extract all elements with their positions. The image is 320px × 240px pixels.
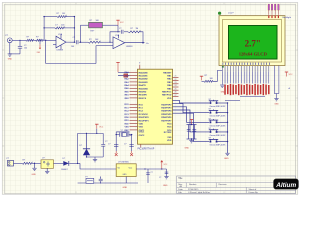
svg-text:GND: GND xyxy=(32,174,37,176)
svg-text:PIC16F877A-I/P: PIC16F877A-I/P xyxy=(138,148,155,151)
svg-text:VCC: VCC xyxy=(120,22,125,24)
svg-text:Number: Number xyxy=(189,183,197,186)
svg-text:RE0/RD: RE0/RD xyxy=(139,92,147,94)
svg-text:GND: GND xyxy=(274,104,279,106)
svg-text:22: 22 xyxy=(175,79,177,81)
svg-text:VDD: VDD xyxy=(139,124,144,126)
svg-text:1M: 1M xyxy=(62,13,65,15)
svg-text:F?: F? xyxy=(86,176,88,178)
svg-text:23: 23 xyxy=(175,82,177,84)
svg-text:VDD: VDD xyxy=(124,123,129,125)
svg-text:GND: GND xyxy=(224,158,229,160)
svg-text:LM358: LM358 xyxy=(57,50,64,52)
svg-text:RE1/WR: RE1/WR xyxy=(139,95,148,97)
svg-text:VCC: VCC xyxy=(289,74,294,76)
svg-text:RB6/PGC: RB6/PGC xyxy=(162,92,172,94)
svg-text:Revision: Revision xyxy=(219,184,228,186)
svg-text:D?: D? xyxy=(80,145,82,147)
svg-text:C?: C? xyxy=(124,144,126,146)
svg-text:Omron B3F-10XX: Omron B3F-10XX xyxy=(210,135,227,137)
svg-text:Title: Title xyxy=(178,177,183,180)
svg-text:104: 104 xyxy=(71,46,74,48)
svg-text:RE2/CS: RE2/CS xyxy=(139,98,147,100)
svg-text:RD1/PSP1: RD1/PSP1 xyxy=(139,120,150,122)
svg-text:GND: GND xyxy=(8,59,13,61)
svg-text:C?: C? xyxy=(119,28,121,30)
svg-text:128x64 GLCD: 128x64 GLCD xyxy=(239,52,268,57)
svg-text:RA5/AN4: RA5/AN4 xyxy=(139,87,149,90)
svg-text:U?A: U?A xyxy=(58,33,63,36)
svg-text:REF: REF xyxy=(37,52,40,54)
svg-text:VDD: VDD xyxy=(167,98,172,100)
svg-text:RC3/SCK: RC3/SCK xyxy=(139,114,149,116)
svg-text:C?: C? xyxy=(105,141,107,143)
svg-text:GND: GND xyxy=(185,148,190,150)
svg-text:Omron B3F-10XX: Omron B3F-10XX xyxy=(210,125,227,127)
svg-text:24: 24 xyxy=(175,85,177,87)
svg-text:RB7/PGD: RB7/PGD xyxy=(162,95,172,97)
svg-text:RD7/PSP7: RD7/PSP7 xyxy=(161,120,172,122)
svg-text:RD0/PSP0: RD0/PSP0 xyxy=(139,117,150,119)
svg-text:S?: S? xyxy=(209,118,211,120)
svg-text:VCC: VCC xyxy=(99,127,104,129)
svg-text:RA4/T0: RA4/T0 xyxy=(139,84,147,87)
svg-text:RB0/INT: RB0/INT xyxy=(163,72,172,74)
svg-text:OSC2: OSC2 xyxy=(139,135,146,137)
svg-text:S?: S? xyxy=(209,138,211,140)
svg-text:S?: S? xyxy=(209,99,211,101)
svg-text:VSS: VSS xyxy=(167,137,172,139)
svg-text:Omron B3F-10XX: Omron B3F-10XX xyxy=(210,145,227,147)
svg-text:VSS: VSS xyxy=(139,127,144,129)
svg-text:LM358: LM358 xyxy=(126,46,133,48)
svg-text:Backlight: Backlight xyxy=(283,16,292,19)
svg-text:RV?: RV? xyxy=(91,31,95,33)
svg-text:Vin: Vin xyxy=(118,168,121,170)
svg-text:RD4/PSP4: RD4/PSP4 xyxy=(161,110,172,113)
svg-text:GND: GND xyxy=(123,174,128,176)
svg-text:File:: File: xyxy=(178,192,182,194)
svg-text:Omron B3F-10XX: Omron B3F-10XX xyxy=(210,106,227,108)
svg-text:GND: GND xyxy=(163,185,168,187)
svg-text:26: 26 xyxy=(175,92,177,94)
svg-text:S?: S? xyxy=(209,128,211,130)
svg-text:Vout: Vout xyxy=(129,167,133,170)
svg-text:VDD: VDD xyxy=(167,140,172,142)
svg-text:C?: C? xyxy=(151,172,153,174)
svg-text:RA2/AN2: RA2/AN2 xyxy=(139,78,149,81)
svg-text:S?: S? xyxy=(209,109,211,111)
svg-text:1M: 1M xyxy=(136,28,139,30)
svg-text:RD3/PSP3: RD3/PSP3 xyxy=(161,108,172,110)
svg-text:GND: GND xyxy=(123,187,128,189)
svg-text:R?: R? xyxy=(131,28,133,30)
svg-text:U?A: U?A xyxy=(115,34,120,37)
svg-text:C:\Users\..\glcd.SchDoc: C:\Users\..\glcd.SchDoc xyxy=(188,191,210,194)
svg-text:VSS: VSS xyxy=(124,127,129,129)
svg-text:Y?: Y? xyxy=(121,130,123,132)
svg-text:OSC1: OSC1 xyxy=(139,132,146,134)
svg-text:Altium: Altium xyxy=(275,182,296,189)
svg-text:LCD?: LCD? xyxy=(228,13,234,15)
svg-text:1N4007: 1N4007 xyxy=(61,169,68,171)
svg-text:25: 25 xyxy=(175,88,177,90)
svg-text:2.7": 2.7" xyxy=(245,39,261,49)
svg-text:Drawn By:: Drawn By: xyxy=(249,191,259,194)
svg-text:C?: C? xyxy=(108,144,110,146)
svg-text:RD2/PSP2: RD2/PSP2 xyxy=(161,104,172,106)
svg-text:27/04/2015: 27/04/2015 xyxy=(188,189,199,191)
svg-text:C?: C? xyxy=(24,45,26,47)
svg-text:RA1/AN1: RA1/AN1 xyxy=(139,75,149,78)
svg-text:104: 104 xyxy=(24,48,27,50)
svg-text:C?: C? xyxy=(159,177,161,179)
svg-text:Omron B3F-10XX: Omron B3F-10XX xyxy=(210,116,227,118)
svg-text:27: 27 xyxy=(175,95,177,97)
svg-text:RA3/AN3: RA3/AN3 xyxy=(139,81,149,84)
svg-text:RD6/PSP6: RD6/PSP6 xyxy=(161,117,172,119)
svg-text:RD5/PSP5: RD5/PSP5 xyxy=(161,114,172,116)
svg-text:RA0/AN0: RA0/AN0 xyxy=(139,71,149,74)
svg-text:RC7/RX: RC7/RX xyxy=(164,132,172,134)
svg-text:U? LM7805: U? LM7805 xyxy=(118,162,130,164)
svg-text:Sheet of: Sheet of xyxy=(249,188,257,191)
svg-text:Date:: Date: xyxy=(178,188,183,191)
svg-text:21: 21 xyxy=(175,76,177,78)
